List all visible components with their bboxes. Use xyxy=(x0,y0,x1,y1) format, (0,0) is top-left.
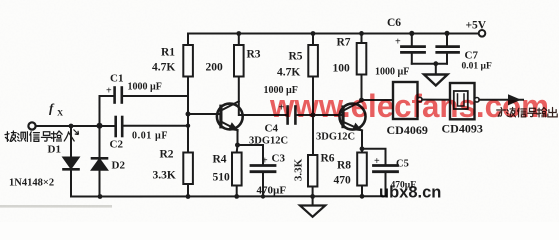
wire bias divider 1 vertical xyxy=(187,77,189,153)
scan artifact line bottom-left xyxy=(0,205,112,208)
capacitor C4 xyxy=(288,107,296,124)
wire R2 bottom lead xyxy=(187,184,189,197)
ground 1 xyxy=(300,206,325,217)
wire R5 lead xyxy=(312,34,314,46)
label input arrow xyxy=(74,130,79,135)
capacitor C1 xyxy=(115,88,122,103)
resistor R8 xyxy=(357,153,367,186)
node C2 tap xyxy=(186,124,190,128)
node base1 tap xyxy=(186,112,191,117)
wire U1 to U2 xyxy=(422,99,450,101)
capacitor C2 xyxy=(116,117,123,136)
label input hanzi 被测信号输入 xyxy=(5,131,74,141)
wire C5 branch xyxy=(362,149,386,165)
wire C1 branch up xyxy=(100,96,115,126)
diode D2 xyxy=(99,126,101,158)
resistor R5 xyxy=(308,45,318,77)
node C7 rail junction xyxy=(444,31,449,36)
wire R3 lead / collector xyxy=(238,34,240,46)
wire ground rail bottom xyxy=(71,195,386,197)
wire C3 branch xyxy=(238,145,264,165)
emitter arrow Q1 xyxy=(228,122,239,131)
wire bias divider 2 xyxy=(312,77,314,156)
node R5 rail junction xyxy=(311,31,316,36)
resistor R7 xyxy=(357,43,367,75)
node D2 / C1 tap xyxy=(97,123,103,129)
resistor R1 xyxy=(183,45,193,77)
wire R7 lead xyxy=(361,33,363,43)
transistor Q1 xyxy=(217,104,243,130)
transistor Q2 xyxy=(340,104,366,130)
node D1 tap xyxy=(69,124,74,129)
wire input line xyxy=(35,125,115,127)
node R3 rail junction xyxy=(236,31,241,36)
node emitter1 xyxy=(235,143,240,148)
diode D1 xyxy=(70,126,72,158)
wire collector vertical + C4 branch xyxy=(239,77,287,116)
capacitor C5 xyxy=(374,166,398,172)
resistor R4 xyxy=(232,153,242,186)
wire C1 to divider xyxy=(122,95,188,97)
ground 2 xyxy=(435,64,437,75)
resistor R2 xyxy=(183,153,193,185)
output arrow xyxy=(508,94,521,105)
terminal input xyxy=(28,122,35,129)
resistor R6 xyxy=(308,155,317,187)
label output hanzi 方波信号输出 xyxy=(497,108,557,117)
gate U1 CD4069 xyxy=(393,82,418,119)
wire C6/C7 bottom bus xyxy=(412,63,447,65)
node C6 rail junction xyxy=(409,31,414,36)
wire R4 top lead xyxy=(236,145,239,153)
terminal +5V xyxy=(479,30,486,37)
wire output xyxy=(479,99,523,101)
node R7 rail junction xyxy=(359,31,364,36)
capacitor C3 xyxy=(251,166,275,172)
wire R7 bottom / collector junction / to CD4069 xyxy=(361,75,363,102)
capacitor C7 xyxy=(446,33,448,46)
gate U2 CD4093 xyxy=(450,83,475,119)
resistor R3 xyxy=(234,45,244,77)
node base2 xyxy=(311,113,316,118)
wire top supply rail xyxy=(188,33,482,35)
emitter arrow Q2 xyxy=(352,123,363,132)
node emitter2 xyxy=(360,146,365,151)
wire R1 top lead xyxy=(187,34,189,46)
node collector2 xyxy=(359,98,364,103)
wire C2 to base node xyxy=(123,125,188,127)
wire R6 bottom to ground symbol xyxy=(312,187,314,206)
capacitor C6 xyxy=(411,33,413,45)
